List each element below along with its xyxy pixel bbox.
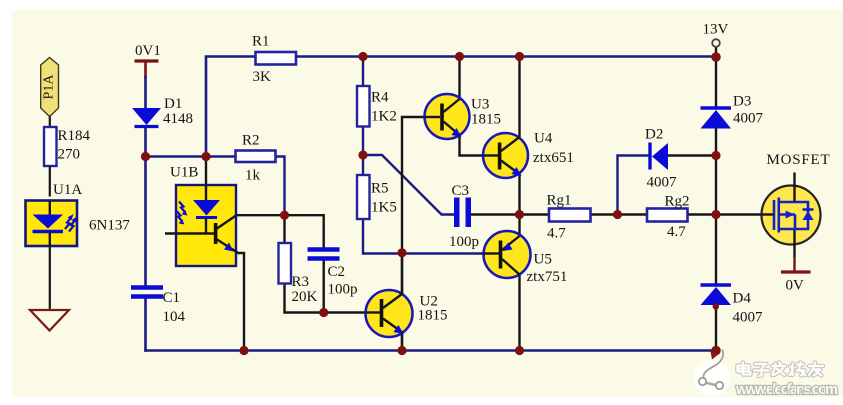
wire D3 to D2 node <box>715 129 717 215</box>
resistor R3 <box>279 243 292 284</box>
supply bar 0V at MOSFET source <box>793 257 795 271</box>
wire U1B collector to R3 node <box>236 214 285 216</box>
svg-text:R5: R5 <box>371 181 389 197</box>
transistor U2 <box>366 253 413 351</box>
svg-text:1K2: 1K2 <box>371 109 397 125</box>
svg-text:D1: D1 <box>164 96 182 112</box>
svg-text:U1A: U1A <box>53 182 82 198</box>
wire R2 right lead down <box>276 157 285 216</box>
svg-text:C1: C1 <box>163 290 181 306</box>
svg-text:0V1: 0V1 <box>135 43 161 59</box>
svg-text:R1: R1 <box>252 34 270 50</box>
wire R5 bottom run <box>363 219 499 254</box>
watermark text dianzifashaoyou <box>738 363 824 377</box>
wire U3 base vertical <box>402 117 440 351</box>
wire U4 collector vertical <box>518 57 520 137</box>
optocoupler U1A <box>26 201 78 247</box>
svg-text:3K: 3K <box>253 69 272 85</box>
svg-text:4007: 4007 <box>647 175 678 191</box>
transistor U4 <box>483 133 528 178</box>
wire 13V column top <box>715 47 717 107</box>
wire flag to R184 <box>49 117 51 128</box>
svg-text:104: 104 <box>163 309 186 325</box>
svg-text:C2: C2 <box>328 264 346 280</box>
svg-text:4148: 4148 <box>163 111 193 127</box>
svg-text:MOSFET: MOSFET <box>767 152 831 168</box>
svg-text:Rg1: Rg1 <box>547 193 572 209</box>
svg-text:U5: U5 <box>534 252 552 268</box>
wire U1A to ground <box>49 245 51 310</box>
svg-text:4007: 4007 <box>733 111 764 127</box>
svg-text:www.elecfans.com: www.elecfans.com <box>735 382 838 398</box>
svg-text:1k: 1k <box>245 168 261 184</box>
wire C2 bottom <box>323 260 325 313</box>
svg-text:100p: 100p <box>449 234 479 250</box>
svg-text:C3: C3 <box>452 183 470 199</box>
svg-text:1815: 1815 <box>418 308 448 324</box>
svg-text:D4: D4 <box>733 291 752 307</box>
svg-text:U3: U3 <box>471 97 489 113</box>
wire 0V1 column <box>144 62 147 77</box>
wire top rail right of R1 <box>296 55 716 58</box>
svg-text:Rg2: Rg2 <box>665 194 690 210</box>
supply bar 0V1 <box>135 59 159 62</box>
wire gate node to D4 <box>715 215 717 285</box>
wire Rg2 to MOSFET gate <box>688 213 774 215</box>
svg-text:ztx651: ztx651 <box>533 150 574 166</box>
connector flag P1A <box>41 58 59 117</box>
svg-text:R3: R3 <box>292 274 310 290</box>
svg-text:4.7: 4.7 <box>667 224 686 240</box>
svg-text:1K5: 1K5 <box>371 200 397 216</box>
wire U1B emitter drop <box>239 253 244 351</box>
svg-text:R4: R4 <box>371 90 389 106</box>
optocoupler U1B <box>165 185 239 266</box>
wire D1 to node <box>144 128 147 157</box>
resistor R5 <box>357 175 370 219</box>
diode D2 <box>650 143 668 171</box>
diode D4 <box>701 285 732 305</box>
wire mid-left horizontal net <box>146 155 236 158</box>
svg-text:0V: 0V <box>786 278 805 294</box>
resistor Rg2 <box>647 209 688 222</box>
capacitor C3 <box>454 198 471 228</box>
MOSFET <box>762 173 821 258</box>
transistor U5 <box>484 231 531 278</box>
resistor Rg1 <box>549 209 591 222</box>
svg-text:4007: 4007 <box>733 310 764 326</box>
wire D2 to 13V column <box>668 154 716 156</box>
svg-text:13V: 13V <box>703 22 729 38</box>
wire R5 top lead <box>362 155 364 175</box>
svg-text:R2: R2 <box>242 133 260 149</box>
svg-text:D2: D2 <box>645 127 663 143</box>
svg-text:R184: R184 <box>58 128 91 144</box>
svg-text:D3: D3 <box>733 94 751 110</box>
ground <box>30 310 69 331</box>
svg-text:P1A: P1A <box>42 74 57 100</box>
resistor R1 <box>256 52 297 65</box>
svg-text:100p: 100p <box>328 282 358 298</box>
wire C3 right to Rg1 <box>471 213 550 215</box>
svg-text:4.7: 4.7 <box>547 226 566 242</box>
wire R184 to U1A <box>49 166 51 197</box>
wire node to C1 <box>144 157 147 287</box>
wire D4 to bottom rail <box>715 305 717 351</box>
wire diagonal node to C3 <box>363 155 454 215</box>
junction smear at bottom-right corner <box>711 352 720 360</box>
capacitor C1 <box>131 288 163 297</box>
wire U5 emitter vertical <box>518 215 520 237</box>
wire U3 emitter to U4 base <box>460 135 499 156</box>
wire R4 top lead <box>362 57 364 87</box>
svg-text:ztx751: ztx751 <box>527 269 568 285</box>
resistor R4 <box>357 86 370 127</box>
wire U5 collector vertical <box>518 275 520 351</box>
watermark logo circle <box>694 350 730 397</box>
wire Rg1 to Rg2 <box>591 213 648 215</box>
svg-text:U4: U4 <box>534 131 553 147</box>
diode D1 <box>132 108 161 127</box>
wire R3 bottom to U2 base <box>285 284 380 313</box>
wire D2 branch <box>618 156 649 215</box>
wire node to C2 <box>285 215 324 247</box>
wire U3 collector vertical <box>458 57 460 100</box>
wire R4 bottom to node <box>362 127 364 156</box>
svg-text:6N137: 6N137 <box>89 218 130 234</box>
svg-text:1815: 1815 <box>471 112 501 128</box>
wire U4 emitter vertical <box>518 175 520 215</box>
resistor R2 <box>236 151 276 163</box>
svg-text:20K: 20K <box>292 289 318 305</box>
wire top rail <box>206 57 256 157</box>
diode D3 <box>701 108 732 129</box>
capacitor C2 <box>308 250 340 259</box>
resistor R184 <box>44 127 57 166</box>
wire photodiode column <box>205 157 207 201</box>
transistor U3 <box>425 94 470 139</box>
svg-text:270: 270 <box>58 147 81 163</box>
svg-text:U1B: U1B <box>170 165 198 181</box>
wire bottom rail <box>146 349 717 352</box>
wire C1 to bottom rail <box>144 298 147 351</box>
wire R3 top lead <box>283 215 285 243</box>
